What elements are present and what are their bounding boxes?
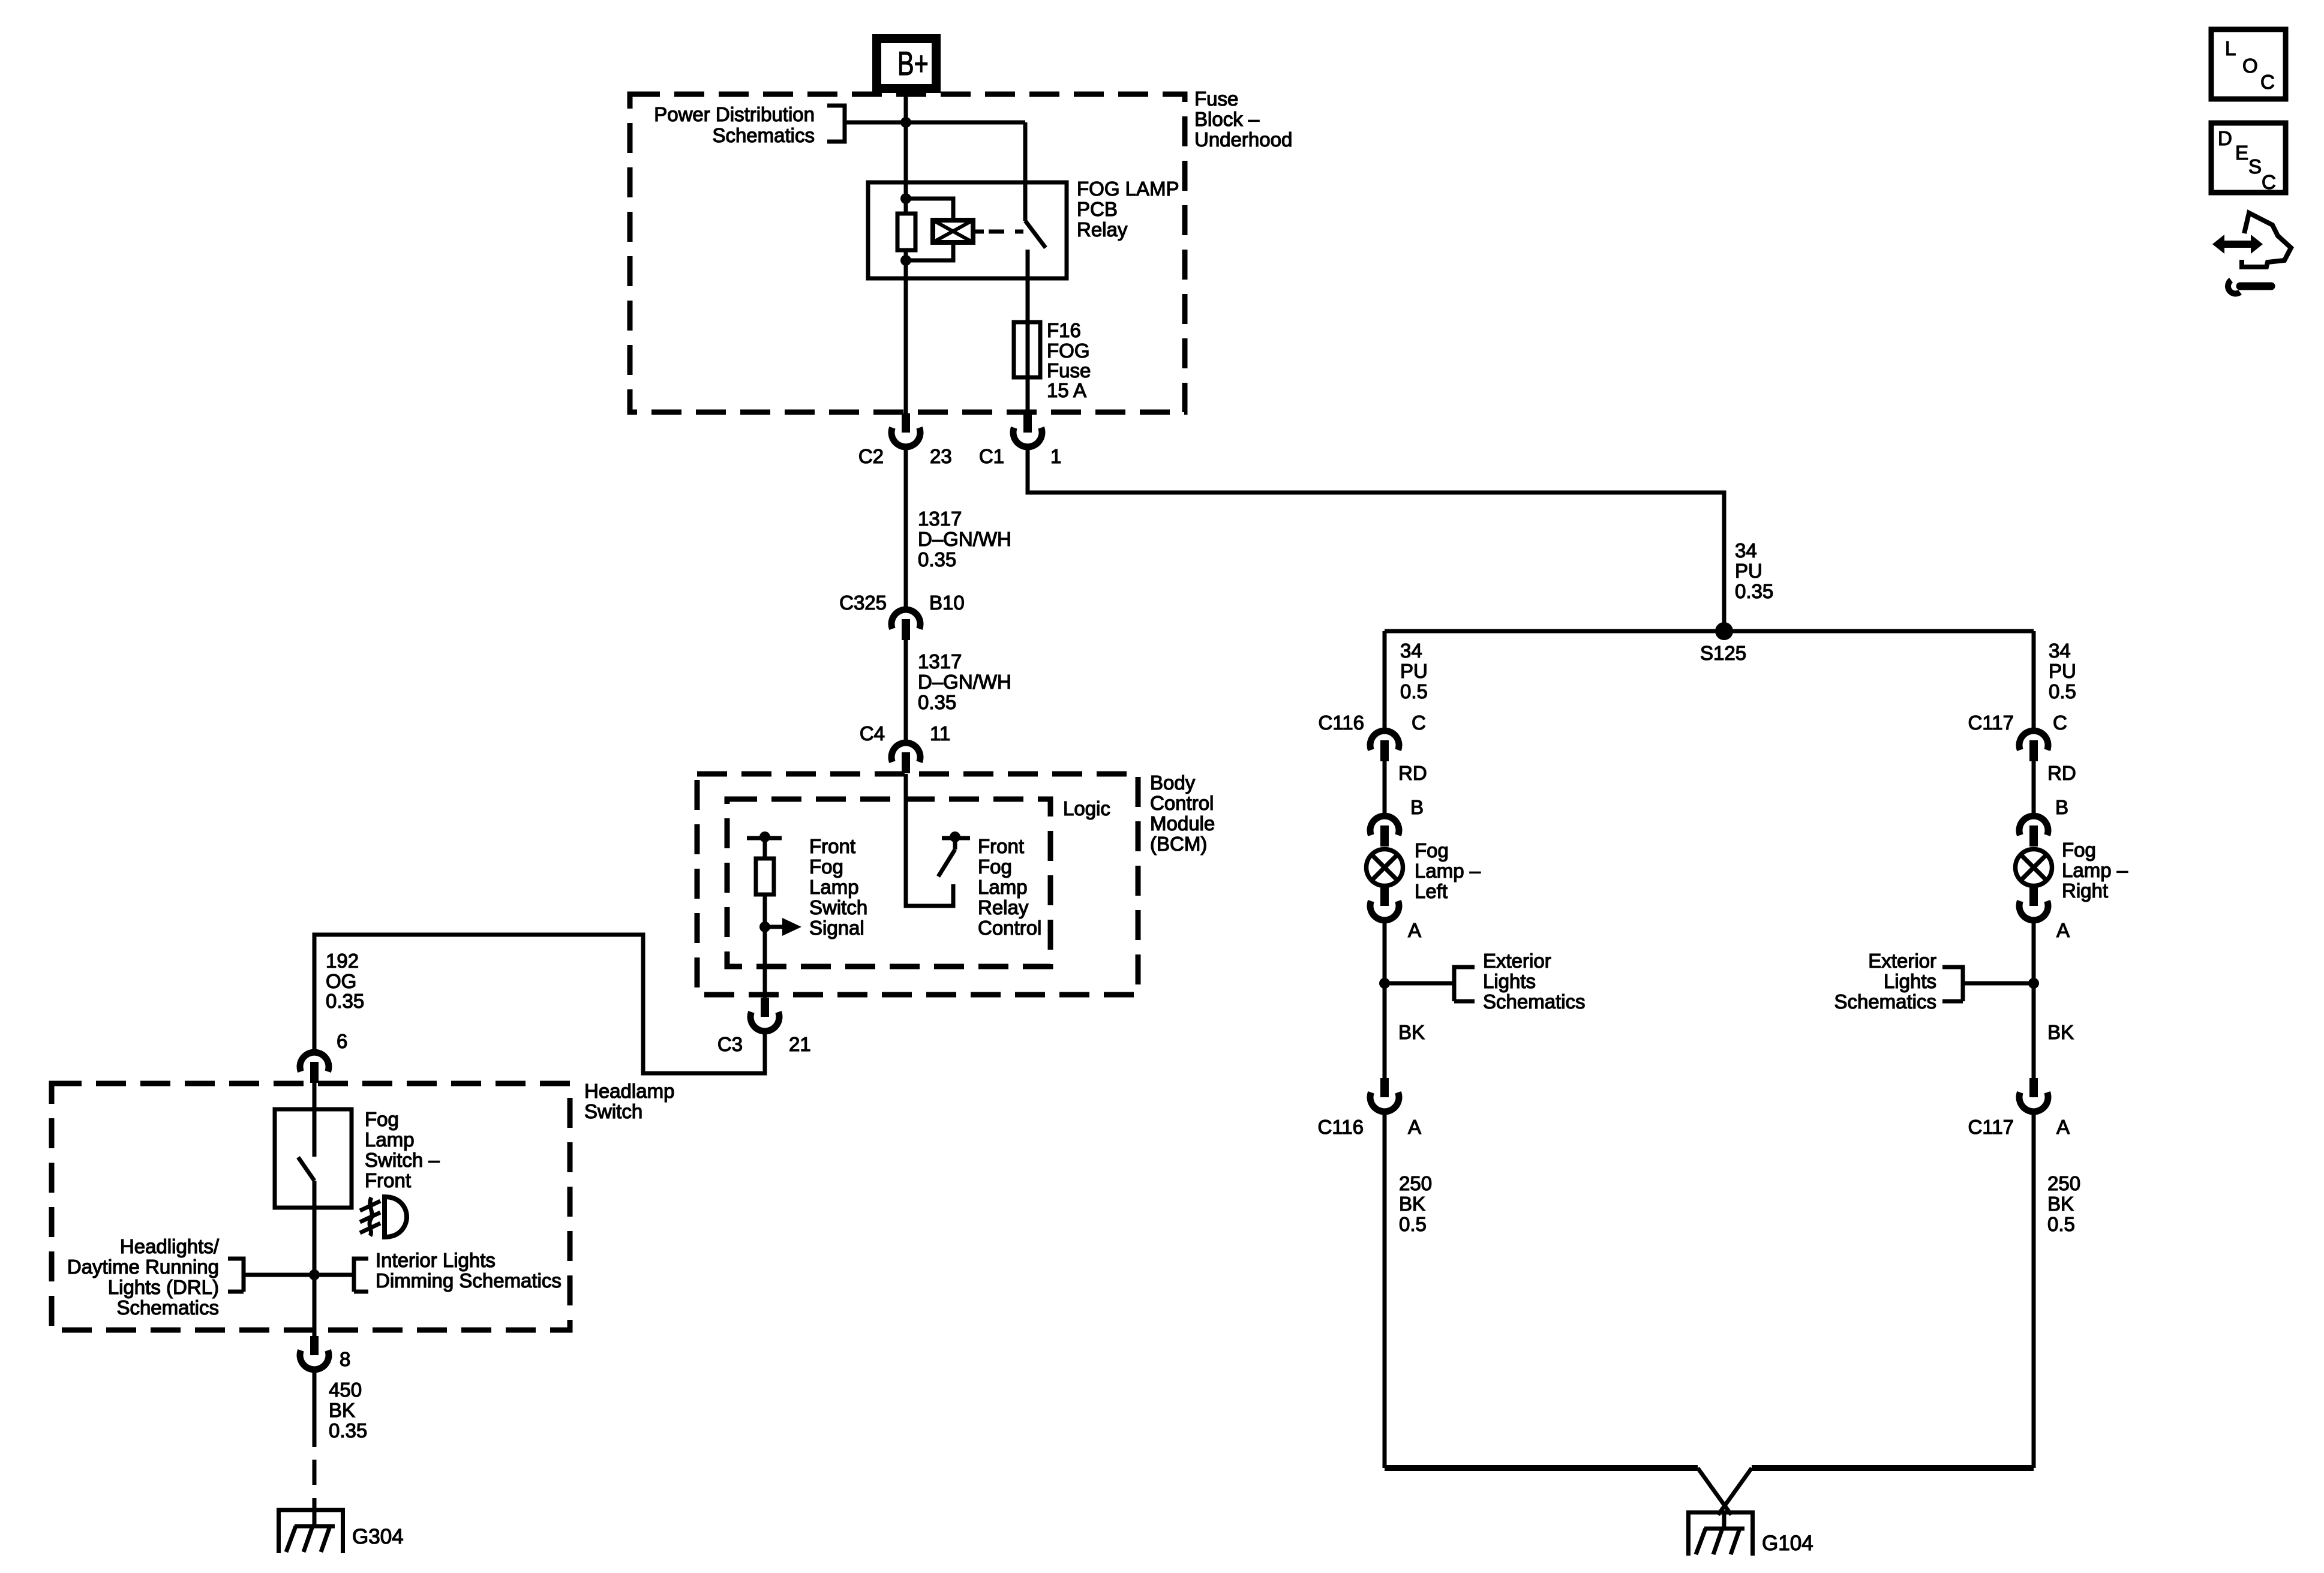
svg-text:Body: Body	[1150, 772, 1196, 794]
svg-text:S125: S125	[1700, 642, 1746, 664]
svg-text:L: L	[2225, 37, 2236, 59]
svg-text:C2: C2	[858, 445, 884, 467]
svg-text:Lamp –: Lamp –	[2062, 859, 2128, 881]
svg-text:0.35: 0.35	[918, 691, 956, 713]
svg-text:Fog: Fog	[365, 1108, 399, 1130]
svg-text:0.35: 0.35	[329, 1419, 367, 1442]
svg-text:(BCM): (BCM)	[1150, 833, 1207, 855]
svg-text:0.35: 0.35	[326, 990, 364, 1012]
svg-text:Headlamp: Headlamp	[584, 1080, 674, 1102]
svg-text:E: E	[2235, 142, 2248, 164]
svg-text:0.5: 0.5	[1400, 680, 1428, 703]
svg-text:A: A	[1408, 1116, 1421, 1138]
svg-text:C4: C4	[860, 722, 885, 745]
svg-text:Schematics: Schematics	[712, 124, 815, 146]
svg-text:C3: C3	[717, 1033, 743, 1055]
svg-text:G104: G104	[1762, 1532, 1813, 1555]
svg-text:Switch: Switch	[809, 896, 867, 918]
svg-text:PCB: PCB	[1077, 198, 1118, 220]
svg-text:A: A	[1408, 919, 1421, 941]
svg-text:C116: C116	[1319, 712, 1364, 734]
svg-text:Interior Lights: Interior Lights	[376, 1249, 496, 1271]
svg-text:450: 450	[329, 1379, 362, 1401]
svg-text:PU: PU	[1400, 660, 1428, 682]
svg-text:C: C	[2260, 71, 2275, 93]
svg-text:RD: RD	[2047, 762, 2076, 784]
svg-text:Lamp: Lamp	[365, 1128, 415, 1151]
svg-text:Lights: Lights	[1483, 970, 1536, 992]
svg-text:FOG LAMP: FOG LAMP	[1077, 178, 1179, 200]
svg-text:Fog: Fog	[1415, 839, 1449, 861]
svg-text:A: A	[2056, 919, 2070, 941]
svg-text:Switch –: Switch –	[365, 1149, 440, 1171]
svg-text:Lamp: Lamp	[978, 876, 1028, 898]
svg-text:Front: Front	[978, 835, 1024, 857]
svg-text:Control: Control	[978, 917, 1041, 939]
svg-text:Lights: Lights	[1884, 970, 1936, 992]
svg-text:Logic: Logic	[1063, 797, 1110, 819]
svg-text:1317: 1317	[918, 508, 962, 530]
svg-text:FOG: FOG	[1047, 340, 1090, 362]
svg-text:250: 250	[1399, 1172, 1432, 1194]
svg-text:A: A	[2056, 1116, 2070, 1138]
svg-text:Relay: Relay	[1077, 218, 1128, 241]
svg-text:21: 21	[789, 1033, 811, 1055]
svg-text:B: B	[2055, 796, 2068, 818]
svg-text:192: 192	[326, 950, 359, 972]
svg-text:1317: 1317	[918, 650, 962, 673]
svg-text:B+: B+	[897, 45, 929, 83]
svg-text:C117: C117	[1968, 1116, 2014, 1138]
svg-text:PU: PU	[1735, 560, 1762, 582]
svg-text:Schematics: Schematics	[116, 1296, 219, 1319]
svg-text:BK: BK	[329, 1399, 355, 1421]
svg-text:RD: RD	[1398, 762, 1427, 784]
svg-text:PU: PU	[2049, 660, 2076, 682]
svg-text:Control: Control	[1150, 792, 1214, 814]
svg-text:Block –: Block –	[1194, 108, 1260, 130]
svg-text:C: C	[2262, 171, 2276, 193]
svg-text:6: 6	[337, 1030, 347, 1052]
svg-text:Fuse: Fuse	[1047, 359, 1091, 382]
svg-text:Exterior: Exterior	[1483, 950, 1551, 972]
svg-text:D–GN/WH: D–GN/WH	[918, 671, 1011, 693]
svg-text:C325: C325	[839, 592, 887, 614]
svg-text:0.5: 0.5	[1399, 1213, 1427, 1235]
svg-text:Daytime Running: Daytime Running	[67, 1256, 219, 1278]
svg-text:Module: Module	[1150, 812, 1215, 834]
svg-text:Right: Right	[2062, 879, 2108, 902]
svg-text:Signal: Signal	[809, 917, 864, 939]
svg-text:15 A: 15 A	[1047, 379, 1086, 401]
svg-text:Schematics: Schematics	[1483, 990, 1586, 1013]
svg-text:Front: Front	[809, 835, 855, 857]
svg-text:Underhood: Underhood	[1194, 128, 1292, 151]
svg-text:Fog: Fog	[978, 855, 1012, 878]
svg-text:B10: B10	[929, 592, 965, 614]
svg-text:D: D	[2218, 127, 2232, 149]
svg-text:C116: C116	[1318, 1116, 1364, 1138]
svg-text:Lamp –: Lamp –	[1415, 860, 1481, 882]
svg-text:BK: BK	[2047, 1021, 2074, 1043]
svg-text:Front: Front	[365, 1169, 411, 1191]
svg-text:G304: G304	[352, 1525, 404, 1548]
svg-text:Fog: Fog	[809, 855, 843, 878]
svg-text:O: O	[2242, 55, 2258, 77]
svg-text:Fuse: Fuse	[1194, 88, 1238, 110]
svg-text:Lights (DRL): Lights (DRL)	[108, 1276, 219, 1298]
svg-text:Left: Left	[1415, 880, 1448, 902]
svg-text:B: B	[1410, 796, 1424, 818]
svg-text:Exterior: Exterior	[1868, 950, 1936, 972]
svg-text:BK: BK	[2047, 1193, 2074, 1215]
svg-text:34: 34	[1735, 539, 1757, 562]
svg-text:C1: C1	[979, 445, 1004, 467]
svg-text:C: C	[1412, 712, 1426, 734]
svg-text:Schematics: Schematics	[1834, 990, 1936, 1013]
svg-text:S: S	[2248, 155, 2262, 178]
svg-text:C: C	[2053, 712, 2067, 734]
svg-text:BK: BK	[1399, 1193, 1425, 1215]
svg-text:0.5: 0.5	[2047, 1213, 2075, 1235]
svg-text:OG: OG	[326, 970, 356, 992]
svg-text:Power Distribution: Power Distribution	[654, 103, 815, 125]
svg-text:Switch: Switch	[584, 1100, 642, 1122]
svg-text:C117: C117	[1968, 712, 2014, 734]
svg-text:BK: BK	[1398, 1021, 1425, 1043]
svg-text:Headlights/: Headlights/	[120, 1235, 220, 1257]
svg-text:D–GN/WH: D–GN/WH	[918, 528, 1011, 550]
svg-text:8: 8	[340, 1348, 350, 1370]
svg-text:F16: F16	[1047, 319, 1081, 341]
svg-text:Dimming Schematics: Dimming Schematics	[376, 1269, 562, 1292]
svg-text:0.5: 0.5	[2049, 680, 2076, 703]
svg-text:250: 250	[2047, 1172, 2080, 1194]
svg-text:Fog: Fog	[2062, 839, 2096, 861]
svg-text:23: 23	[930, 445, 952, 467]
svg-text:1: 1	[1050, 445, 1061, 467]
svg-text:Relay: Relay	[978, 896, 1029, 918]
svg-text:0.35: 0.35	[918, 548, 956, 571]
svg-text:Lamp: Lamp	[809, 876, 859, 898]
svg-text:0.35: 0.35	[1735, 580, 1773, 602]
svg-text:34: 34	[2049, 640, 2071, 662]
svg-text:11: 11	[930, 722, 950, 745]
svg-text:34: 34	[1400, 640, 1422, 662]
